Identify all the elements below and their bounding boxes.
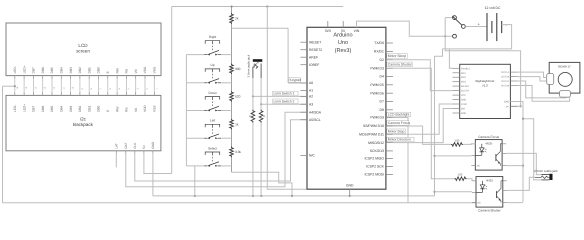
wires LCD pins to i2c Backpack pins (16 bus wires)	[15, 79, 155, 92]
wire opto1 collector to jack tip	[506, 153, 541, 174]
svg-text:LED+: LED+	[22, 65, 26, 73]
wire Down button left to common bus	[186, 110, 204, 112]
svg-text:MOSI/PWM D11: MOSI/PWM D11	[359, 133, 384, 137]
svg-text:ENABLE: ENABLE	[461, 67, 471, 70]
svg-text:4N35: 4N35	[485, 142, 493, 146]
wire switch common to battery positive	[465, 26, 487, 28]
svg-text:MS1: MS1	[461, 72, 467, 75]
connector J2 2.5mm Audio jack camera remote	[534, 169, 558, 180]
svg-text:NC: NC	[477, 164, 481, 167]
svg-text:DB0: DB0	[97, 105, 101, 111]
wire PWM D11 Motor Step to BigEasyDriver STEP	[387, 104, 453, 134]
wire backpack CLK to Arduino A5/SCL	[135, 120, 307, 181]
resistor R7 limit switch 2 pulldown	[259, 110, 266, 123]
svg-text:DB3: DB3	[69, 105, 73, 111]
svg-text:ICSP2 MOSI: ICSP2 MOSI	[364, 173, 383, 177]
svg-text:CLK: CLK	[133, 142, 137, 149]
wire BigEasyDriver M+ stub	[510, 105, 520, 107]
pushbutton Up	[204, 63, 221, 84]
svg-text:5v: 5v	[142, 145, 146, 149]
svg-text:ICSP2 MISO: ICSP2 MISO	[364, 157, 384, 161]
resistor 1k keypad ladder	[230, 119, 239, 130]
wire ground return branch to BigEasyDriver ENABLE	[449, 49, 452, 68]
wire ground riser battery negative to ground bus	[433, 49, 442, 196]
svg-text:Camera Focus: Camera Focus	[388, 121, 411, 125]
svg-text:A0: A0	[309, 81, 313, 85]
wire switch throw2 to BigEasyDriver M+	[445, 36, 522, 107]
svg-text:SS/PWM D10: SS/PWM D10	[363, 124, 384, 128]
svg-text:A4/SDA: A4/SDA	[309, 110, 322, 114]
IC LCD screen (parallel 16x2 display) with pin labels	[6, 23, 161, 79]
svg-text:DB2: DB2	[78, 105, 82, 111]
resistor 620 keypad ladder	[230, 91, 241, 102]
wire BigEasyDriver GND down to opto emitters	[510, 102, 524, 202]
svg-text:Limit Switch 2: Limit Switch 2	[274, 99, 295, 103]
resistor 2k keypad ladder	[230, 13, 239, 24]
svg-text:N/C: N/C	[309, 154, 315, 158]
svg-text:DB5: DB5	[50, 67, 54, 73]
svg-text:GND: GND	[461, 99, 467, 102]
svg-text:GND: GND	[504, 101, 510, 104]
wire OUT1B to motor	[517, 77, 546, 81]
svg-text:i2c: i2c	[80, 117, 87, 122]
svg-text:SCK/D13: SCK/D13	[370, 149, 384, 153]
svg-text:Motor Direction: Motor Direction	[388, 138, 411, 142]
svg-text:Uno: Uno	[338, 40, 348, 46]
wire backpack GND pin down to ground bus	[152, 154, 154, 196]
svg-text:/RESET: /RESET	[461, 85, 470, 88]
svg-text:NEMA 17: NEMA 17	[558, 64, 571, 68]
svg-text:5V: 5V	[341, 29, 346, 33]
svg-text:DB6: DB6	[41, 67, 45, 73]
svg-text:STEP: STEP	[461, 103, 468, 106]
wire 5V top rail	[172, 5, 344, 7]
svg-text:V0: V0	[134, 108, 138, 112]
wire D2 Motor Sleep to BigEasyDriver SLEEP	[387, 54, 453, 91]
wire jack tip down	[252, 78, 254, 196]
svg-text:TX/D0: TX/D0	[374, 41, 384, 45]
svg-text:A3: A3	[309, 102, 313, 106]
svg-text:DAT: DAT	[124, 143, 128, 149]
svg-text:V0: V0	[134, 69, 138, 73]
wire OUT2B to motor bottom	[517, 86, 569, 102]
wire LED- backlight cathode to ground bus via left edge	[3, 85, 16, 203]
svg-text:VIN: VIN	[354, 29, 360, 33]
wire ground bus (upper)	[153, 195, 435, 197]
svg-text:A5/SCL: A5/SCL	[309, 118, 321, 122]
svg-text:DB7: DB7	[32, 105, 36, 111]
svg-text:VDD: VDD	[143, 104, 147, 111]
svg-text:Limit Switch 1: Limit Switch 1	[274, 92, 295, 96]
svg-text:LED-: LED-	[13, 105, 17, 112]
svg-text:NC: NC	[478, 201, 482, 204]
svg-text:RW: RW	[115, 107, 119, 112]
wire backpack DAT to Arduino A4/SDA	[126, 112, 307, 187]
wire limit switch 1 to Arduino A2 with label	[252, 91, 307, 97]
pushbutton Down	[204, 91, 221, 112]
wire PWM D10 Camera Focus to opto 1 resistor	[387, 121, 451, 145]
svg-text:620: 620	[235, 95, 241, 99]
svg-text:LAT: LAT	[115, 143, 119, 149]
wire Select common to upper ground bus	[194, 166, 196, 196]
svg-text:ICSP2 SCK: ICSP2 SCK	[366, 165, 384, 169]
wire opto2 cathode to ground riser	[435, 191, 473, 193]
svg-text:3V3: 3V3	[325, 29, 331, 33]
svg-text:GND: GND	[461, 112, 467, 115]
svg-text:A1: A1	[309, 89, 313, 93]
svg-text:3.5mm audio jack: 3.5mm audio jack	[247, 54, 251, 77]
svg-text:Down: Down	[209, 91, 217, 95]
svg-text:3.3k: 3.3k	[235, 150, 241, 154]
connector J1 3.5mm audio jack for limit switches	[247, 54, 263, 78]
svg-text:Right: Right	[209, 35, 217, 39]
svg-text:Motor Sleep: Motor Sleep	[388, 54, 406, 58]
svg-text:E: E	[106, 71, 110, 73]
svg-text:1k: 1k	[235, 122, 239, 126]
svg-text:D8: D8	[380, 108, 384, 112]
svg-text:D2: D2	[380, 58, 384, 62]
wire Down button right to ladder	[221, 110, 231, 112]
motor M1 NEMA 17 stepper motor	[547, 62, 580, 97]
wire 5V riser left (rail to backpack 5v)	[171, 7, 173, 174]
svg-text:OUT2A: OUT2A	[501, 80, 509, 83]
svg-text:4N35: 4N35	[486, 179, 494, 183]
svg-text:PWM D5: PWM D5	[370, 83, 384, 87]
svg-text:RESET2: RESET2	[309, 48, 322, 52]
IC U2 i2c Backpack with pin labels	[6, 92, 161, 154]
optocoupler U4 4N35 Camera Focus	[471, 135, 506, 170]
svg-text:DB1: DB1	[87, 105, 91, 111]
svg-text:100: 100	[455, 139, 460, 143]
svg-text:VSS: VSS	[153, 106, 157, 112]
svg-text:v1.2: v1.2	[482, 83, 488, 87]
wire button common bus vertical	[185, 55, 187, 166]
wire Left button left to common bus	[186, 137, 204, 139]
wire D12 Motor Direction to BigEasyDriver DIR	[387, 109, 453, 143]
svg-text:DB2: DB2	[78, 67, 82, 73]
svg-text:Left: Left	[210, 119, 215, 123]
svg-text:GND: GND	[346, 184, 354, 188]
svg-text:330: 330	[235, 67, 241, 71]
svg-text:VCC: VCC	[461, 94, 466, 97]
svg-text:DB3: DB3	[69, 67, 73, 73]
svg-text:DB1: DB1	[87, 67, 91, 73]
optocoupler U5 4N35 Camera Shutter	[472, 177, 507, 213]
svg-text:PWM D9: PWM D9	[370, 116, 384, 120]
wire PWM D3 Camera Shutter to opto 2 resistor	[387, 62, 455, 179]
wire PWM D9 LCD Backlight to bottom bus	[387, 112, 411, 203]
svg-text:A2: A2	[309, 95, 313, 99]
IC U3 BigEasyDriver v1.2 stepper driver with pin labels	[453, 64, 518, 118]
wire opto1 cathode to ground riser	[435, 155, 472, 157]
svg-text:Keypad: Keypad	[290, 78, 302, 82]
wire stub backpack LAT	[115, 154, 117, 168]
svg-text:/RESET: /RESET	[309, 40, 321, 44]
resistor R9 100 opto2 series	[455, 172, 467, 180]
svg-text:RW: RW	[115, 68, 119, 73]
svg-text:AREF: AREF	[309, 55, 318, 59]
wire opto1 emitter to common	[506, 165, 523, 167]
battery BT1 12 volt DC	[477, 6, 507, 41]
svg-text:2k: 2k	[235, 17, 239, 21]
svg-text:D4: D4	[380, 75, 384, 79]
svg-text:OUT2B: OUT2B	[501, 85, 509, 88]
svg-text:PWM D3: PWM D3	[370, 66, 384, 70]
svg-text:GND: GND	[151, 141, 155, 149]
wire backpack 5v pin to riser	[144, 154, 172, 174]
svg-text:12 volt DC: 12 volt DC	[485, 6, 501, 10]
wire switch throw1 tie	[445, 18, 452, 37]
wire OUT2A to motor bottom	[517, 81, 565, 98]
svg-text:VDD: VDD	[143, 66, 147, 73]
svg-text:MS3: MS3	[461, 81, 467, 84]
pushbutton Select	[204, 146, 221, 166]
svg-text:DB7: DB7	[32, 67, 36, 73]
wire 5V rail drop at x267 to bottom	[267, 7, 306, 190]
wire keypad output node to Arduino A0 with Keypad label	[232, 28, 308, 83]
wire opto2 emitter to common	[507, 202, 523, 204]
svg-text:DB0: DB0	[97, 67, 101, 73]
svg-text:E: E	[106, 110, 110, 112]
wire Up button right to ladder	[221, 82, 231, 84]
svg-text:IOREF: IOREF	[309, 63, 319, 67]
resistor R6 limit switch 1 pulldown	[249, 110, 255, 123]
svg-text:DB5: DB5	[50, 105, 54, 111]
wire Right button right to ladder	[221, 54, 231, 56]
wire battery negative to ground return	[443, 25, 512, 49]
wire ground branch to jack sleeve	[522, 118, 542, 180]
wire OUT1A to motor	[517, 72, 546, 77]
pushbutton Right	[204, 35, 221, 56]
svg-text:Motor Step: Motor Step	[388, 129, 405, 133]
wire Up button left to common bus	[186, 82, 204, 84]
svg-text:VSS: VSS	[153, 67, 157, 73]
resistor 330 keypad ladder	[230, 64, 241, 75]
svg-text:Select: Select	[208, 146, 217, 150]
svg-text:OUT1B: OUT1B	[501, 76, 509, 79]
wire jack ring down	[260, 78, 262, 196]
svg-text:RS: RS	[125, 69, 129, 73]
svg-text:LCD: LCD	[78, 43, 88, 48]
svg-text:Up: Up	[211, 63, 215, 67]
svg-text:MISO/D12: MISO/D12	[368, 141, 384, 145]
svg-text:(Rev3): (Rev3)	[335, 47, 352, 54]
svg-text:LED+: LED+	[22, 104, 26, 112]
svg-text:RS: RS	[125, 107, 129, 111]
svg-text:Camera Shutter: Camera Shutter	[388, 62, 413, 66]
resistor 3.3k keypad ladder	[230, 147, 242, 158]
wire Right button left to common bus	[186, 54, 204, 56]
wire Left button right to ladder	[221, 137, 231, 139]
wire resistor to opto2 anode	[467, 179, 472, 181]
wire keypad resistor ladder column	[232, 7, 294, 197]
wire opto2 collector to jack ring	[507, 177, 535, 190]
resistor R8 100 opto1 series	[451, 139, 463, 147]
wire limit switch 2 to Arduino A3 with label	[260, 99, 307, 105]
svg-text:/SLEEP: /SLEEP	[461, 90, 470, 93]
svg-text:Camera Shutter: Camera Shutter	[478, 208, 501, 212]
pin number marks between LCD and backpack	[16, 86, 159, 89]
svg-text:DIR: DIR	[461, 108, 465, 111]
svg-text:DB4: DB4	[60, 67, 64, 73]
svg-text:2.5mm Audio jack: 2.5mm Audio jack	[534, 169, 558, 173]
svg-text:Camera Focus: Camera Focus	[478, 135, 499, 139]
wire ground bus (bottom)	[3, 202, 477, 204]
svg-text:100: 100	[458, 172, 463, 176]
svg-text:screen: screen	[76, 49, 90, 54]
svg-text:DB6: DB6	[41, 105, 45, 111]
pushbutton Left	[204, 119, 221, 139]
IC U1 Arduino Uno (Rev3) with pin labels	[300, 21, 393, 196]
svg-text:M+: M+	[506, 105, 510, 108]
svg-text:OUT1A: OUT1A	[501, 71, 509, 74]
switch SW1 SPDT power switch	[452, 16, 465, 38]
wire Select button left to common bus	[186, 165, 204, 167]
svg-text:Backpack: Backpack	[73, 122, 94, 127]
wire Select button right to ladder	[221, 165, 231, 167]
wire resistor to opto1 anode	[463, 143, 475, 146]
svg-text:RX/D1: RX/D1	[374, 50, 384, 54]
svg-text:MS2: MS2	[461, 76, 467, 79]
svg-text:D7: D7	[380, 100, 384, 104]
svg-text:LCD Backlight: LCD Backlight	[388, 113, 410, 117]
svg-text:LED-: LED-	[13, 66, 17, 73]
wire VIN to switch throw2	[357, 21, 453, 37]
svg-text:DB4: DB4	[60, 105, 64, 111]
svg-text:PWM D6: PWM D6	[370, 91, 384, 95]
